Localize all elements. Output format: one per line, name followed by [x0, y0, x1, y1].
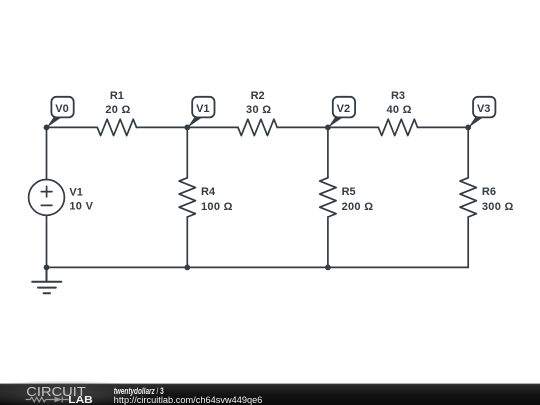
wire R4 to bottom	[186, 217, 188, 267]
junction R4 bottom	[184, 265, 190, 271]
svg-text:R1: R1	[110, 90, 124, 102]
svg-text:20 Ω: 20 Ω	[105, 104, 130, 116]
node flag V3	[468, 97, 495, 128]
node flag V0	[47, 97, 74, 128]
wire R2 to V2	[277, 126, 328, 128]
resistor R1 zigzag	[97, 119, 136, 135]
junction node V3	[465, 125, 471, 131]
wire V2 node down to R5	[327, 127, 329, 177]
svg-text:40 Ω: 40 Ω	[386, 104, 411, 116]
wire source V1 to ground node	[46, 215, 48, 267]
voltage source V1 plus sign	[41, 186, 52, 197]
wire V2 to R3	[328, 126, 379, 128]
wire V1 node down to R4	[186, 127, 188, 177]
svg-text:R6: R6	[482, 186, 496, 198]
wire R5 to bottom	[327, 217, 329, 267]
svg-text:V0: V0	[55, 103, 68, 115]
wire R1 to V1	[137, 126, 188, 128]
svg-text:V3: V3	[477, 103, 490, 115]
svg-text:R3: R3	[391, 90, 405, 102]
svg-text:V1: V1	[196, 103, 209, 115]
node flag V2	[328, 97, 355, 128]
wire V0 node down to source V1	[46, 127, 48, 179]
svg-text:LAB: LAB	[68, 394, 93, 405]
resistor R3 zigzag	[378, 119, 417, 135]
junction node V2	[325, 125, 331, 131]
junction node V1	[184, 125, 190, 131]
svg-text:300 Ω: 300 Ω	[482, 201, 514, 213]
svg-text:V1: V1	[69, 187, 82, 199]
svg-text:200 Ω: 200 Ω	[342, 201, 374, 213]
voltage source V1 circle	[29, 180, 65, 216]
wire R3 to V3	[418, 126, 469, 128]
svg-text:R4: R4	[201, 186, 216, 198]
resistor R4 zigzag	[179, 178, 195, 217]
svg-text:V2: V2	[337, 103, 350, 115]
resistor R5 zigzag	[320, 178, 336, 217]
wire bottom rail	[47, 266, 469, 268]
logo resistor zigzag glyph	[26, 397, 69, 403]
voltage source V1 minus sign	[41, 204, 52, 206]
svg-text:http://circuitlab.com/ch64svw4: http://circuitlab.com/ch64svw449qe6	[114, 395, 263, 405]
junction ground node	[44, 265, 50, 271]
svg-text:100 Ω: 100 Ω	[201, 201, 233, 213]
svg-text:R2: R2	[251, 90, 265, 102]
wire V1 to R2	[187, 126, 238, 128]
wire R6 to bottom	[467, 217, 469, 267]
junction node V0	[44, 125, 50, 131]
node flag V1	[187, 97, 214, 128]
junction R5 bottom	[325, 265, 331, 271]
resistor R6 zigzag	[460, 178, 476, 217]
wire V3 node down to R6	[467, 127, 469, 177]
resistor R2 zigzag	[238, 119, 277, 135]
wire top V0 to R1	[47, 126, 98, 128]
svg-text:30 Ω: 30 Ω	[246, 104, 271, 116]
svg-text:10 V: 10 V	[69, 201, 93, 213]
svg-text:R5: R5	[342, 186, 356, 198]
logo diode glyph	[61, 397, 63, 403]
ground symbol	[32, 267, 61, 293]
